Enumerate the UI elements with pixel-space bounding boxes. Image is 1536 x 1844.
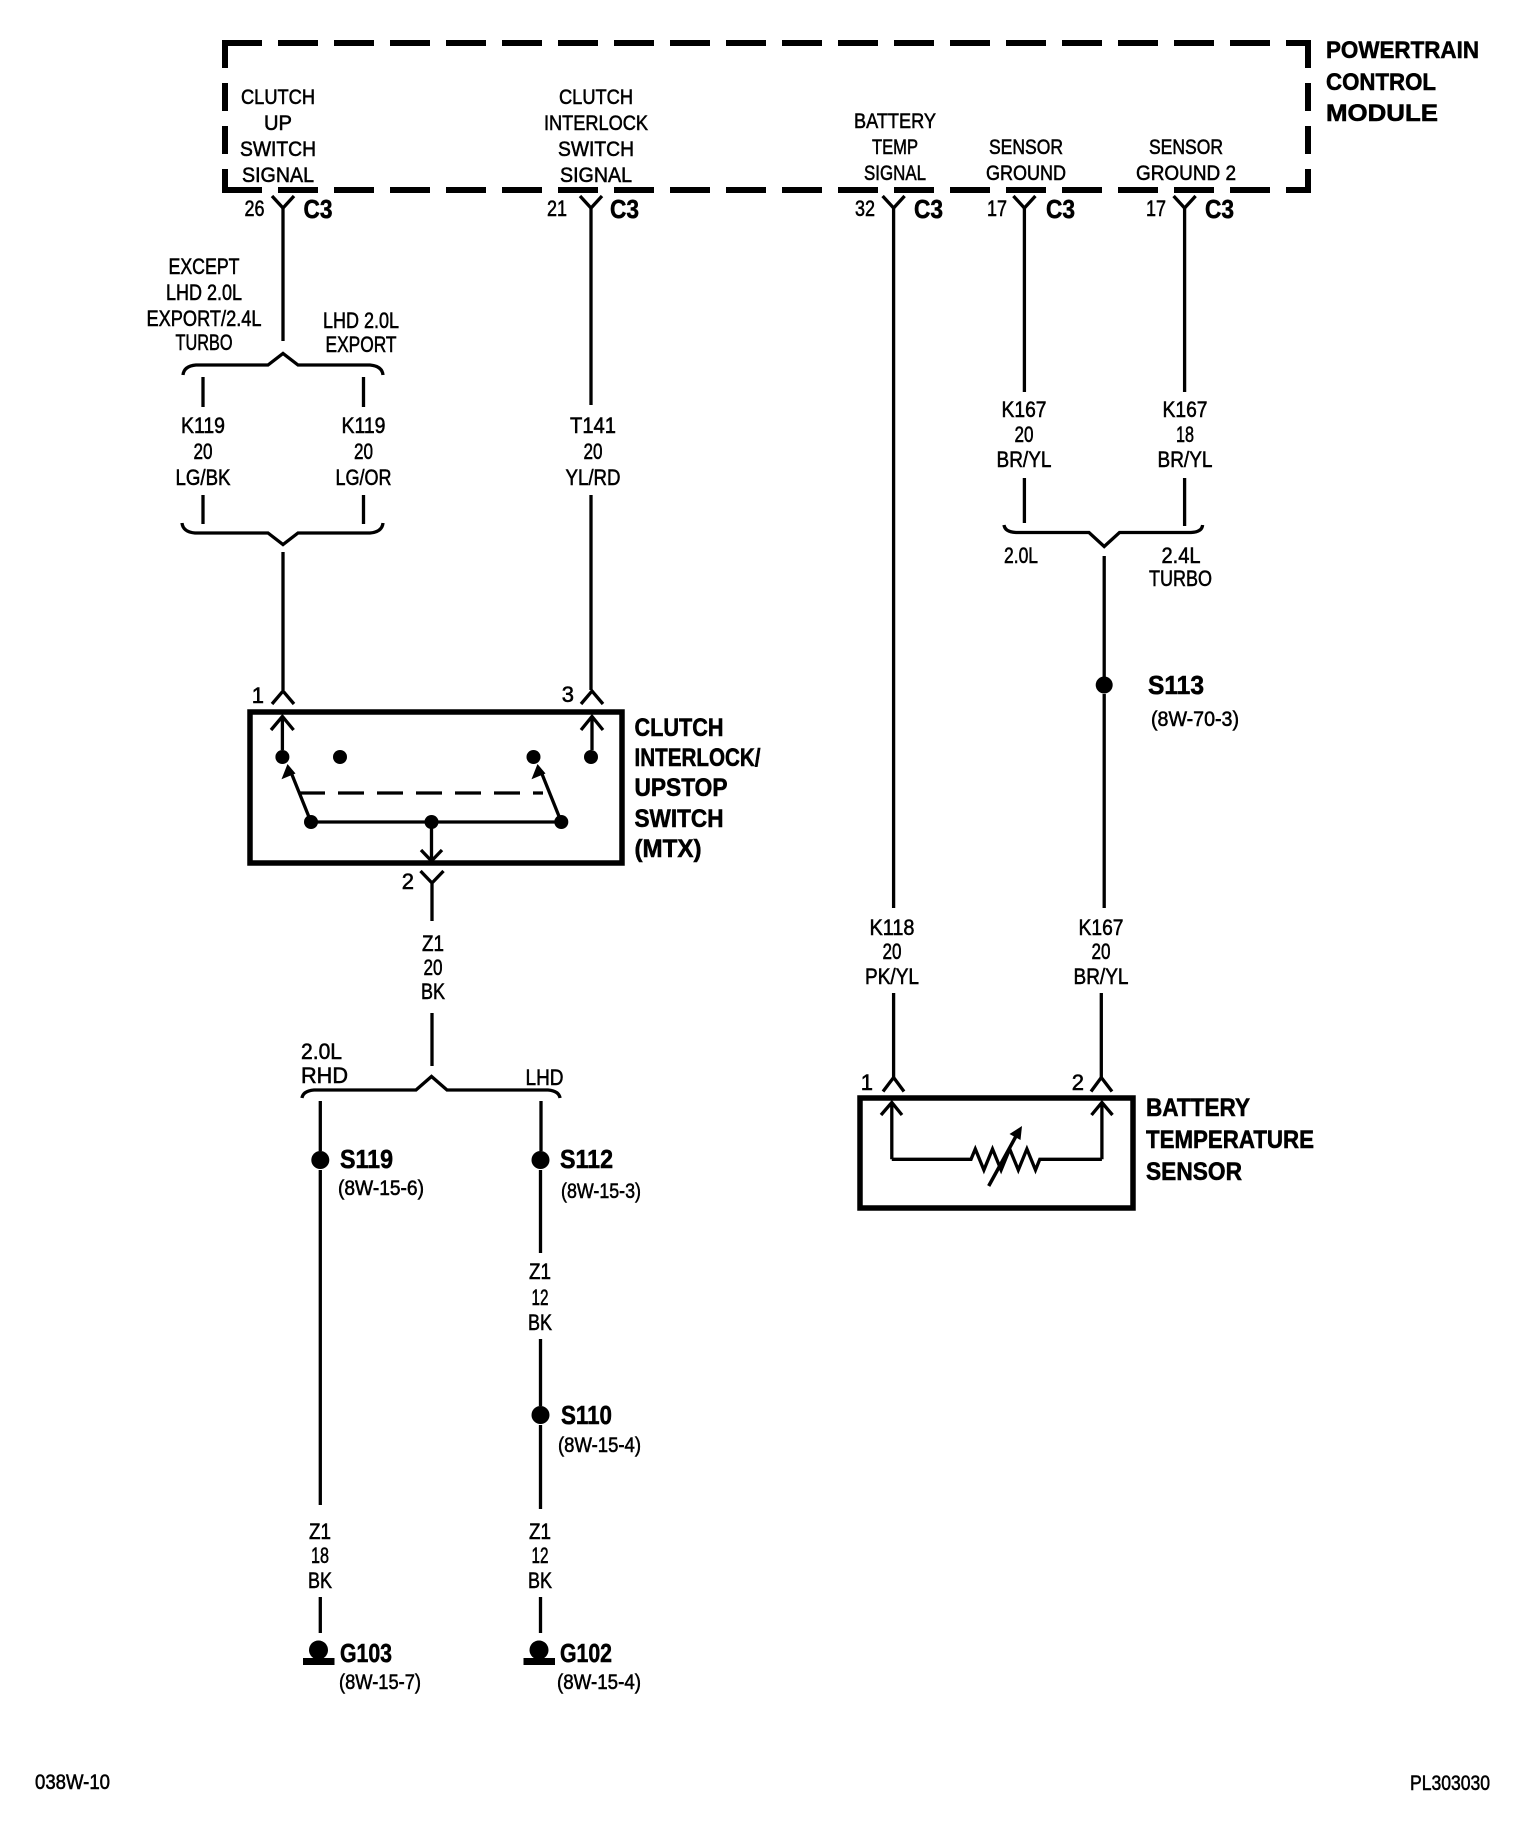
wire from pin 26 down to split brace (281, 208, 284, 341)
svg-text:1: 1 (861, 1070, 873, 1095)
svg-text:20: 20 (1092, 939, 1111, 964)
svg-text:(8W-15-3): (8W-15-3) (561, 1180, 641, 1203)
switch connector pin 3 (562, 682, 603, 707)
svg-text:K119: K119 (181, 413, 225, 438)
svg-text:17: 17 (987, 196, 1007, 221)
svg-text:BK: BK (421, 979, 445, 1004)
label POWERTRAIN CONTROL MODULE (1326, 37, 1479, 127)
pin 21 C3 (clutch interlock switch signal) (547, 194, 639, 224)
svg-text:C3: C3 (1046, 194, 1075, 224)
wire from merge brace to switch pin 1 (281, 552, 284, 690)
merge brace (variants rejoin) (182, 523, 383, 545)
svg-text:CLUTCH: CLUTCH (559, 86, 633, 109)
svg-text:(8W-15-4): (8W-15-4) (558, 1434, 641, 1457)
svg-text:17: 17 (1146, 196, 1166, 221)
pin 17 C3 (sensor ground) (987, 194, 1075, 224)
svg-text:20: 20 (424, 955, 443, 980)
svg-text:SWITCH: SWITCH (240, 138, 316, 161)
footer code PL303030 (1410, 1772, 1490, 1795)
svg-text:BR/YL: BR/YL (1074, 964, 1129, 989)
wire K119 20 LG/OR (336, 413, 392, 490)
pin 1 inner chevron and lead (271, 717, 294, 751)
battery temperature sensor box (860, 1098, 1133, 1208)
node CLUTCH UP SWITCH SIGNAL (240, 86, 316, 187)
Powertrain Control Module box (dashed outline) (222, 40, 1311, 192)
svg-text:(8W-15-7): (8W-15-7) (339, 1671, 421, 1694)
svg-text:C3: C3 (914, 194, 943, 224)
svg-text:PL303030: PL303030 (1410, 1772, 1490, 1795)
svg-text:LG/OR: LG/OR (336, 465, 392, 490)
svg-text:2.4L: 2.4L (1162, 543, 1201, 568)
svg-text:(8W-70-3): (8W-70-3) (1151, 708, 1239, 731)
switch arm 2 (with arrowhead) (541, 771, 562, 822)
label BATTERY TEMPERATURE SENSOR (1146, 1094, 1314, 1186)
svg-text:20: 20 (194, 439, 213, 464)
svg-text:EXCEPT: EXCEPT (169, 254, 240, 279)
switch CLUTCH INTERLOCK/UPSTOP SWITCH (MTX) box (250, 712, 622, 863)
svg-text:INTERLOCK: INTERLOCK (544, 112, 648, 135)
svg-text:18: 18 (311, 1543, 329, 1568)
svg-text:G102: G102 (560, 1638, 612, 1668)
svg-text:(8W-15-4): (8W-15-4) (557, 1671, 641, 1694)
svg-text:LG/BK: LG/BK (176, 465, 231, 490)
sensor connector pin 1 (861, 1070, 904, 1095)
svg-text:2: 2 (402, 869, 414, 894)
svg-text:12: 12 (532, 1543, 549, 1568)
svg-text:2.0L: 2.0L (1004, 543, 1038, 568)
ground G102 (524, 1638, 642, 1694)
svg-text:LHD 2.0L: LHD 2.0L (323, 308, 399, 333)
svg-text:20: 20 (354, 439, 373, 464)
wire from pin 21 down (589, 208, 592, 405)
svg-text:BATTERY: BATTERY (854, 110, 936, 133)
label 2.4L TURBO (1149, 543, 1212, 591)
svg-text:RHD: RHD (301, 1063, 348, 1088)
svg-text:SENSOR: SENSOR (989, 136, 1063, 159)
svg-text:Z1: Z1 (529, 1259, 551, 1284)
svg-text:18: 18 (1176, 422, 1194, 447)
wire stub right variant (362, 377, 365, 407)
svg-text:BR/YL: BR/YL (1158, 447, 1213, 472)
label EXCEPT LHD 2.0L EXPORT/2.4L TURBO (147, 254, 262, 355)
wire Z1 18 BK to G103 (319, 1170, 322, 1505)
label 2.0L RHD (301, 1039, 348, 1088)
wire to splice S119 (319, 1101, 322, 1151)
pin 3 inner chevron and lead (581, 717, 603, 751)
svg-text:BATTERY: BATTERY (1146, 1094, 1250, 1122)
svg-text:LHD 2.0L: LHD 2.0L (166, 280, 242, 305)
svg-text:K118: K118 (870, 915, 915, 940)
wire Z1 12 BK to G102 (539, 1425, 542, 1509)
wire Z1 12 BK to S110 (539, 1170, 542, 1253)
node SENSOR GROUND (986, 136, 1066, 185)
pin 26 C3 (clutch up switch signal) (245, 194, 333, 224)
svg-text:BK: BK (308, 1568, 332, 1593)
svg-text:(MTX): (MTX) (635, 835, 702, 863)
svg-text:BR/YL: BR/YL (997, 447, 1052, 472)
wire T141 20 YL/RD (566, 413, 621, 490)
node BATTERY TEMP SIGNAL (854, 110, 936, 185)
svg-text:TEMPERATURE: TEMPERATURE (1146, 1126, 1314, 1154)
svg-text:038W-10: 038W-10 (35, 1771, 110, 1794)
svg-text:3: 3 (562, 682, 574, 707)
switch common rail (311, 820, 561, 823)
svg-text:T141: T141 (570, 413, 616, 438)
svg-text:S110: S110 (561, 1400, 612, 1430)
svg-text:CLUTCH: CLUTCH (241, 86, 315, 109)
svg-text:GROUND 2: GROUND 2 (1136, 162, 1236, 185)
svg-text:PK/YL: PK/YL (865, 964, 919, 989)
split brace (Z1 ground splits RHD/LHD) (302, 1077, 560, 1099)
split brace (pin 26 wire splits to two variants) (183, 354, 383, 376)
pin 17 C3 (sensor ground 2) (1146, 194, 1234, 224)
svg-text:CLUTCH: CLUTCH (635, 714, 724, 742)
svg-text:20: 20 (883, 939, 902, 964)
svg-text:(8W-15-6): (8W-15-6) (338, 1177, 424, 1200)
splice S112 (532, 1144, 642, 1203)
svg-text:SIGNAL: SIGNAL (864, 162, 926, 185)
svg-text:S113: S113 (1148, 670, 1204, 700)
svg-text:SENSOR: SENSOR (1146, 1158, 1242, 1186)
wire K167 18 BR/YL from pin 17 (sensor ground 2) (1183, 208, 1186, 392)
svg-text:C3: C3 (304, 194, 333, 224)
pin 1 inner chevron and lead (881, 1103, 902, 1160)
svg-text:TURBO: TURBO (1149, 566, 1212, 591)
svg-text:26: 26 (245, 196, 265, 221)
pin 2 inner chevron and lead (1092, 1103, 1113, 1160)
svg-text:Z1: Z1 (422, 931, 444, 956)
switch connector pin 2 (402, 869, 444, 921)
wire stub left variant (201, 377, 204, 407)
wire K118 20 PK/YL from pin 32 (892, 208, 895, 908)
svg-text:S119: S119 (340, 1144, 393, 1174)
thermistor (variable resistor) element (892, 1149, 1102, 1170)
switch common dots (lower row) (304, 815, 568, 829)
svg-text:INTERLOCK/: INTERLOCK/ (635, 744, 761, 772)
node SENSOR GROUND 2 (1136, 136, 1236, 185)
svg-text:Z1: Z1 (309, 1519, 331, 1544)
svg-text:K119: K119 (342, 413, 386, 438)
svg-text:BK: BK (528, 1568, 552, 1593)
svg-text:SWITCH: SWITCH (635, 805, 724, 833)
svg-text:C3: C3 (1205, 194, 1234, 224)
wire Z1 20 BK (421, 931, 445, 1004)
label 2.0L (1004, 543, 1038, 568)
svg-text:SENSOR: SENSOR (1149, 136, 1223, 159)
switch connector pin 1 (252, 683, 294, 708)
sensor connector pin 2 (1072, 1070, 1112, 1095)
svg-text:YL/RD: YL/RD (566, 465, 621, 490)
svg-text:BK: BK (528, 1310, 552, 1335)
label LHD (526, 1065, 564, 1090)
wire K119 20 LG/BK (176, 413, 231, 490)
svg-text:TEMP: TEMP (872, 136, 918, 159)
svg-text:SWITCH: SWITCH (558, 138, 634, 161)
svg-text:K167: K167 (1163, 397, 1208, 422)
svg-text:EXPORT: EXPORT (326, 332, 397, 357)
label LHD 2.0L EXPORT (323, 308, 399, 357)
splice S113 (1096, 670, 1239, 731)
svg-text:GROUND: GROUND (986, 162, 1066, 185)
svg-text:G103: G103 (340, 1638, 392, 1668)
svg-text:20: 20 (584, 439, 603, 464)
svg-text:UP: UP (264, 112, 292, 135)
wire to splice S113 (1103, 556, 1106, 677)
svg-text:C3: C3 (610, 194, 639, 224)
switch output arrow to pin 2 (421, 822, 442, 861)
node CLUTCH INTERLOCK SWITCH SIGNAL (544, 86, 648, 187)
merge brace (sensor grounds join) (1004, 525, 1203, 547)
svg-text:TURBO: TURBO (176, 330, 233, 355)
svg-text:POWERTRAIN: POWERTRAIN (1326, 37, 1479, 64)
wire K167 20 BR/YL from pin 17 (1023, 208, 1026, 392)
svg-text:2.0L: 2.0L (301, 1039, 342, 1064)
svg-text:20: 20 (1015, 422, 1034, 447)
svg-text:Z1: Z1 (529, 1519, 551, 1544)
wire K167 20 BR/YL to sensor pin 2 (1103, 694, 1106, 908)
switch contact dots (upper row) (275, 750, 598, 764)
svg-text:SIGNAL: SIGNAL (242, 164, 314, 187)
svg-text:K167: K167 (1079, 915, 1124, 940)
svg-text:2: 2 (1072, 1070, 1084, 1095)
svg-text:CONTROL: CONTROL (1326, 69, 1436, 96)
switch arm 1 (with arrowhead) (291, 771, 312, 822)
svg-text:21: 21 (547, 196, 567, 221)
svg-text:MODULE: MODULE (1326, 100, 1438, 127)
svg-text:S112: S112 (560, 1144, 613, 1174)
svg-text:1: 1 (252, 683, 264, 708)
svg-text:LHD: LHD (526, 1065, 564, 1090)
ground G103 (303, 1638, 421, 1694)
svg-text:EXPORT/2.4L: EXPORT/2.4L (147, 306, 262, 331)
wire to splice S112 (539, 1101, 542, 1151)
splice S119 (311, 1144, 424, 1200)
switch gang dashed link (299, 791, 543, 794)
svg-text:12: 12 (532, 1285, 549, 1310)
splice S110 (532, 1400, 642, 1457)
svg-text:32: 32 (855, 196, 875, 221)
svg-text:SIGNAL: SIGNAL (560, 164, 632, 187)
svg-text:UPSTOP: UPSTOP (635, 774, 728, 802)
pin 32 C3 (battery temp signal) (855, 194, 943, 224)
footer sheet number 038W-10 (35, 1771, 110, 1794)
svg-text:K167: K167 (1002, 397, 1047, 422)
label CLUTCH INTERLOCK/ UPSTOP SWITCH (MTX) (635, 714, 761, 863)
